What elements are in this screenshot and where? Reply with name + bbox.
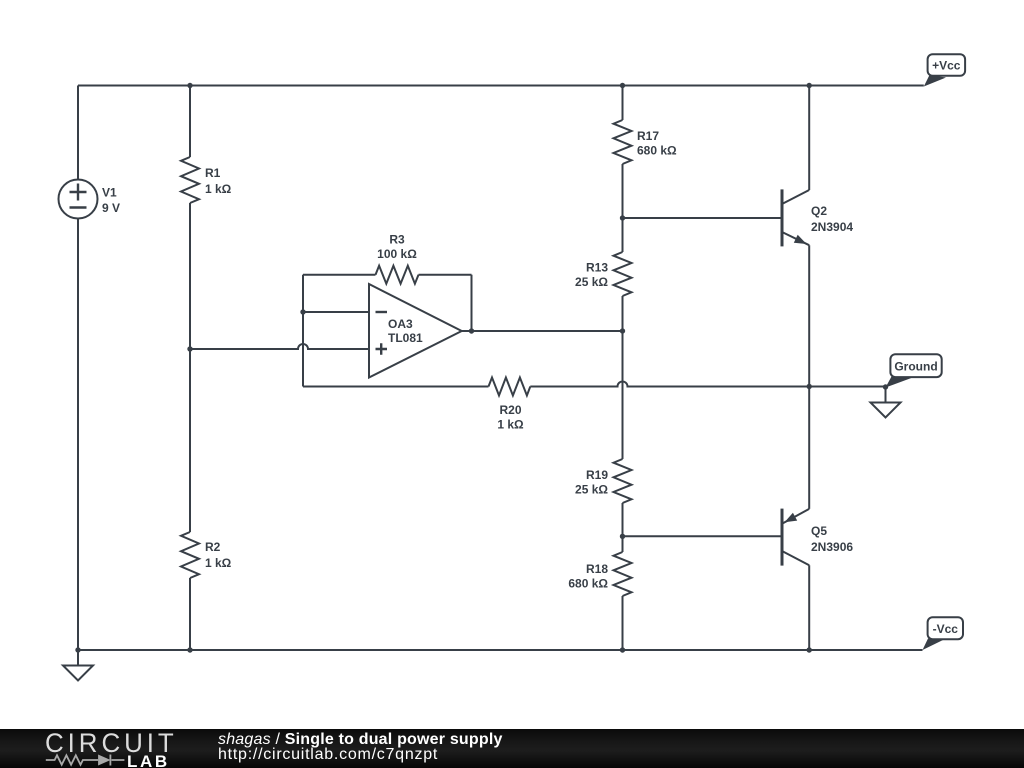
node junction chain top rail [620, 83, 625, 88]
node junction Q5 collector bottom rail [807, 647, 812, 652]
svg-text:Q5: Q5 [811, 524, 827, 538]
ground symbol bottom left [63, 650, 93, 681]
resistor R3 [376, 266, 419, 284]
resistor R19 [614, 459, 632, 503]
svg-text:1 kΩ: 1 kΩ [205, 556, 232, 570]
svg-text:R17: R17 [637, 129, 659, 143]
resistor R13 [614, 252, 632, 296]
ground symbol mid right [871, 387, 901, 418]
wire R19 to R18 [622, 503, 624, 552]
transistor Q2 [782, 189, 809, 246]
resistor R20 [489, 378, 531, 396]
wire Q2 collector to top rail [808, 86, 810, 191]
svg-text:25 kΩ: 25 kΩ [575, 483, 608, 497]
wire feedback right vertical to output [471, 275, 473, 331]
wire R17 to R13 [622, 164, 624, 252]
transistor Q5 [782, 509, 809, 566]
node junction R1 top rail [187, 83, 192, 88]
node junction bottom left ground [75, 647, 80, 652]
wire feedback left vertical [302, 275, 304, 387]
voltage source V1 [59, 180, 98, 219]
net flag +Vcc [924, 54, 965, 86]
wire left rail lower (V1 bottom lead) [77, 219, 79, 651]
logo wordmark LAB [127, 753, 170, 768]
svg-text:2N3906: 2N3906 [811, 540, 853, 554]
wire Q2 base from chain node [623, 217, 783, 219]
wire op-amp output [462, 330, 623, 332]
svg-text:680 kΩ: 680 kΩ [637, 144, 677, 158]
resistor R17 [614, 120, 632, 164]
wire feedback top left segment [303, 274, 376, 276]
node junction output to chain [620, 328, 625, 333]
node junction divider to op-amp input [187, 346, 192, 351]
resistor R18 [614, 552, 632, 596]
svg-text:TL081: TL081 [388, 331, 423, 345]
svg-text:R1: R1 [205, 166, 221, 180]
svg-text:R2: R2 [205, 540, 221, 554]
wire non-inverting input from divider node with hop [190, 344, 369, 349]
wire left rail upper (V1 top lead) [77, 86, 79, 180]
wire bottom -Vcc rail [78, 649, 923, 651]
svg-text:1 kΩ: 1 kΩ [205, 182, 232, 196]
net flag Ground [886, 354, 942, 387]
logo resistor-diode squiggle [46, 755, 125, 764]
wire feedback top right segment [419, 274, 472, 276]
svg-text:+Vcc: +Vcc [932, 59, 961, 73]
node junction R18 bottom rail [620, 647, 625, 652]
svg-text:R3: R3 [389, 233, 405, 247]
svg-text:25 kΩ: 25 kΩ [575, 275, 608, 289]
wire top +Vcc rail [78, 85, 924, 87]
svg-text:V1: V1 [102, 186, 117, 200]
resistor R2 [181, 532, 199, 578]
node junction Q5 base chain [620, 534, 625, 539]
node junction emitters mid rail [807, 384, 812, 389]
wire mid ground rail with hop over chain [530, 382, 885, 387]
wire divider node down to R2 [189, 349, 191, 532]
wire R18 bottom lead to bottom rail [622, 596, 624, 650]
net flag -Vcc [923, 617, 964, 650]
svg-text:R19: R19 [586, 468, 608, 482]
node junction op-amp output feedback [469, 328, 474, 333]
CircuitLab logo wordmark CIRCUIT [45, 730, 178, 757]
wire Q2 emitter down to mid rail [808, 245, 810, 386]
wire chain top lead from top rail [622, 86, 624, 121]
svg-text:9 V: 9 V [102, 201, 120, 215]
wire R1 top lead from top rail [189, 86, 191, 158]
svg-text:R13: R13 [586, 261, 608, 275]
svg-text:680 kΩ: 680 kΩ [568, 577, 608, 591]
resistor R1 [181, 157, 199, 203]
svg-text:100 kΩ: 100 kΩ [377, 247, 417, 261]
wire inverting input tee [303, 311, 369, 313]
wire Q5 base from chain node [623, 535, 783, 537]
footer titles [218, 732, 503, 764]
node junction Q2 base chain [620, 215, 625, 220]
node junction R2 bottom rail [187, 647, 192, 652]
svg-text:OA3: OA3 [388, 317, 413, 331]
node junction ground flag [883, 384, 888, 389]
wire Q5 collector to bottom rail [808, 565, 810, 650]
svg-text:-Vcc: -Vcc [933, 622, 959, 636]
wire mid ground rail left of R20 [303, 386, 489, 388]
svg-text:R20: R20 [499, 403, 521, 417]
node junction inverting input tee [300, 309, 305, 314]
node junction Q2 collector top rail [807, 83, 812, 88]
op-amp OA3 [369, 284, 462, 378]
svg-text:2N3904: 2N3904 [811, 220, 853, 234]
wire Q5 emitter up to mid rail [808, 387, 810, 509]
svg-text:R18: R18 [586, 562, 608, 576]
wire R2 bottom lead to bottom rail [189, 578, 191, 650]
wire R1 bottom to divider node [189, 203, 191, 349]
svg-text:Ground: Ground [894, 360, 937, 374]
wire R13 to R19 [622, 296, 624, 459]
svg-text:Q2: Q2 [811, 204, 827, 218]
svg-text:1 kΩ: 1 kΩ [497, 418, 524, 432]
footer banner [0, 729, 1024, 768]
